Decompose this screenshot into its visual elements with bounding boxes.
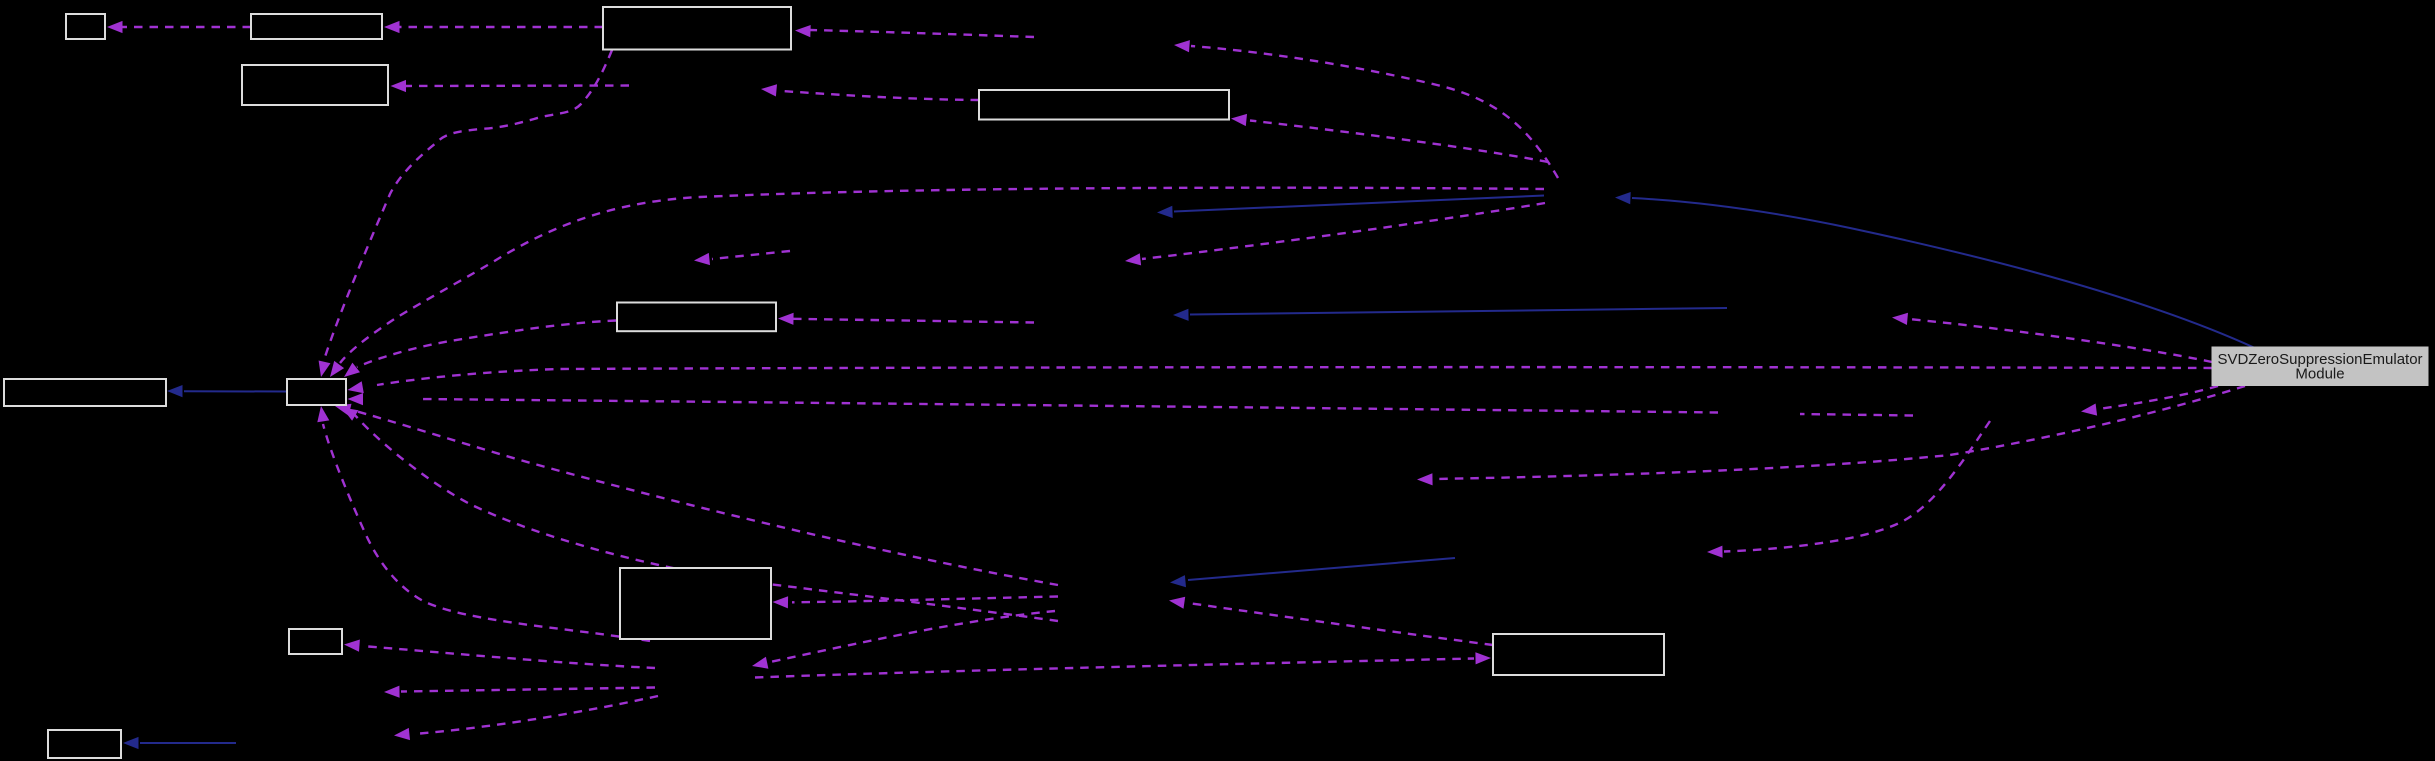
node b4: [242, 65, 388, 105]
edge b13 to Nd: [2098, 386, 2218, 409]
node b13 SVDZeroSuppressionEmulatorModule: [2212, 347, 2428, 386]
edge blue b13 to Na: [1632, 198, 2255, 348]
edge blue Na to Nh2: [1174, 196, 1544, 212]
edge b11 to Ng: [1188, 603, 1493, 645]
node b7: [4, 379, 166, 406]
node b10: [289, 629, 342, 654]
edge Na to Nm: [1191, 46, 1558, 178]
node b12: [48, 730, 121, 758]
edge Ng to b8 botB: [352, 410, 1058, 585]
edge Nf to b11: [755, 659, 1474, 678]
edge Nf to b10: [362, 646, 655, 668]
edge Nd to b8 right2: [420, 399, 1718, 413]
node b3: [603, 7, 791, 50]
edge b6 to b8 topC: [357, 321, 616, 368]
node b11: [1493, 634, 1664, 675]
edge b2 to b1: [122, 26, 251, 28]
edge Ng to b8 botC: [354, 414, 1058, 621]
edge Nf to inv735: [420, 696, 658, 734]
node b9: [620, 568, 771, 639]
edge Nb to b4: [406, 84, 629, 87]
edge blue Np to b12: [140, 742, 236, 744]
edge blue Nc to Nh3: [1190, 308, 1727, 315]
edge b13 to Nj: [1434, 386, 2245, 479]
edge Na to b8 topA: [340, 188, 1544, 363]
node b1: [66, 14, 105, 39]
edge Nd to Nk: [1724, 421, 1990, 552]
edge Nm to b3: [810, 30, 1034, 37]
edge b5 to Nb: [779, 91, 979, 100]
edge b3 to b2: [399, 26, 603, 28]
edge Nd to b8 right2a: [1800, 414, 1913, 416]
edge blue Nl to Ng: [1188, 558, 1455, 580]
edge Ng to Nf: [770, 611, 1055, 662]
node b6: [617, 303, 776, 332]
edge b3 to b8 topB: [324, 50, 612, 360]
edge Na to inv261: [1142, 203, 1545, 259]
svg-text:Module: Module: [2295, 366, 2344, 383]
edge inv to inv260: [712, 251, 790, 259]
edge Nf to inv692: [401, 688, 655, 692]
node b5: [979, 90, 1229, 120]
edge Ng to b9: [792, 597, 1058, 603]
edge Na to b5: [1250, 121, 1548, 163]
edge Nc to b6: [793, 319, 1034, 323]
edge b13 to b8 right1: [377, 367, 2212, 385]
node b2: [251, 14, 382, 39]
edge blue b8 to b7: [184, 390, 287, 392]
node b8 hub: [287, 379, 346, 405]
edge Nf to b8 botA: [323, 424, 650, 641]
edge b13 to Nc: [1909, 319, 2212, 362]
